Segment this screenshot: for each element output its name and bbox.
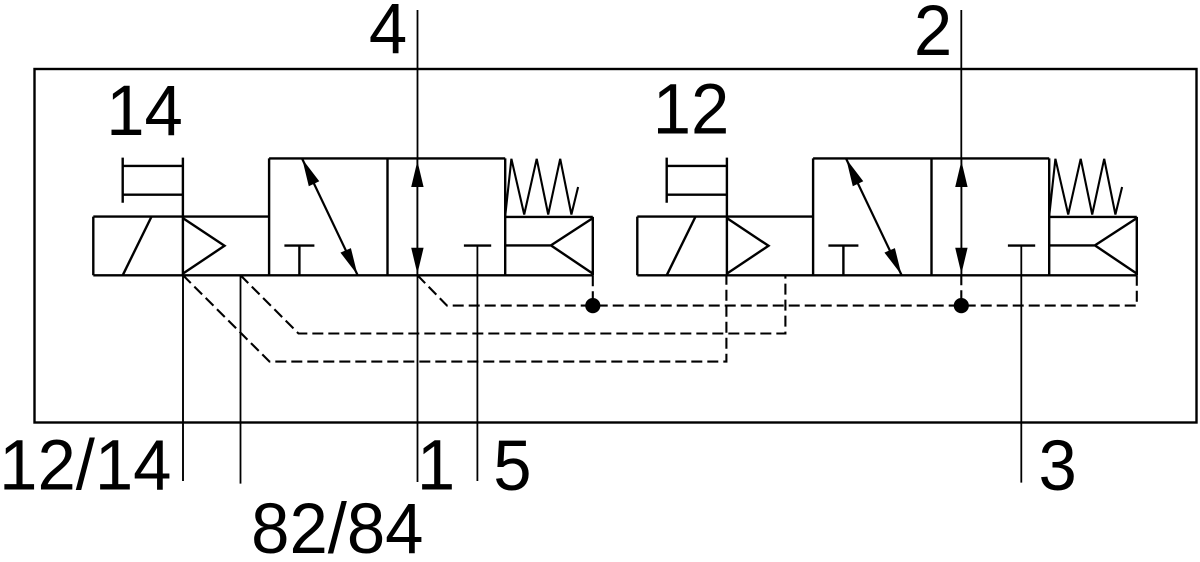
label 4 <box>369 0 407 68</box>
label 12 <box>653 70 730 149</box>
label 3 <box>1039 426 1077 505</box>
svg-text:12: 12 <box>653 70 730 149</box>
label 2 <box>914 0 952 70</box>
pilot line 12/14 to V2 (dashed) <box>183 275 726 361</box>
port 4 line (top, valve V1) <box>417 10 419 158</box>
valve V1 (left) <box>93 158 593 276</box>
pilot port 12/14 line <box>182 275 184 481</box>
pilot line 82/84 to V2 (dashed) <box>241 275 786 333</box>
svg-text:3: 3 <box>1039 426 1077 505</box>
svg-text:14: 14 <box>106 71 183 150</box>
enclosure frame <box>35 69 1197 423</box>
port 3 line (valve V2 T-stem to label 3) <box>1020 246 1022 483</box>
valve V2 (right) <box>637 158 1137 276</box>
svg-text:5: 5 <box>493 426 531 505</box>
port 5 line (valve V1 T-stem to label 5) <box>476 246 478 481</box>
svg-text:82/84: 82/84 <box>251 489 423 562</box>
pilot port 82/84 line <box>240 275 242 483</box>
pilot supply line from port 1 (dashed) <box>418 275 1137 305</box>
junction node dot 1 <box>585 298 600 313</box>
junction node dot 2 <box>954 298 969 313</box>
svg-text:2: 2 <box>914 0 952 70</box>
svg-text:12/14: 12/14 <box>0 425 171 504</box>
label 5 <box>493 426 531 505</box>
dashed stub V1 spring pilot <box>592 275 594 305</box>
svg-text:4: 4 <box>369 0 407 68</box>
label 12/14 <box>0 425 171 504</box>
label 14 <box>106 71 183 150</box>
label 82/84 <box>251 489 423 562</box>
label 1 <box>417 426 455 505</box>
port 2 line (top, valve V2) <box>960 10 962 158</box>
port 1 line (bottom, valve V1) <box>417 275 419 482</box>
dashed stub V2 supply <box>960 275 962 305</box>
